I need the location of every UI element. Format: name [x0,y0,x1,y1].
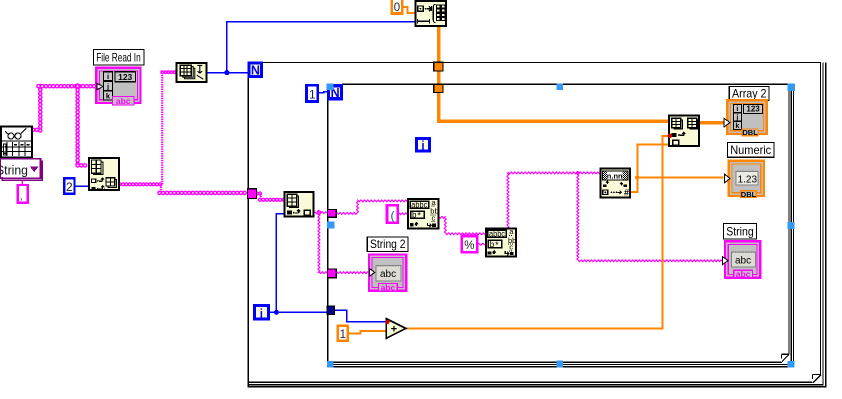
Array Size function [177,63,207,82]
wire: I32 up and right to Initialize Array dimension input [227,22,415,73]
magenta tunnel on outer loop left border [247,189,256,199]
constant 2 [64,178,74,194]
wire: Match Pattern 1 after-substring to Match Pattern 2 [439,216,486,234]
red coercion dot on add input [386,320,390,324]
wire: string to Fract/Exp String To Number [508,172,600,174]
wire: DBL from Fract/Exp output up to Replace element input [631,144,668,192]
Array 2 DBL array indicator [724,100,767,137]
svg-text:abc: abc [736,269,751,279]
junction on i wire [274,310,279,315]
wire: 1D zigzag up to Array Size [161,72,163,184]
svg-text:0: 0 [394,2,400,14]
DBL constant 1 (orange) [338,326,348,341]
svg-text:abc: abc [381,283,396,293]
wire: I32 Array Size to outer loop N [207,72,248,74]
svg-text:i: i [421,141,424,153]
svg-text:k: k [735,123,739,130]
wire: 1D chain down-right to outer loop tunnel [160,184,162,191]
wire: % constant to Match Pattern 2 pattern input [479,243,486,245]
blue tunnel inner loop top-left corner [327,84,334,91]
wire: comma constant stub to VI delimiter input [21,179,23,184]
Numeric label [727,143,773,158]
% string constant [462,236,478,252]
String label [723,224,756,239]
svg-text:N: N [251,63,260,77]
junction on 2D string wire [75,83,81,89]
svg-text:,: , [20,192,23,203]
junction on string wire [317,211,321,215]
( string constant [387,205,398,223]
blue tunnel inner loop right border [788,222,795,229]
svg-text:Numeric: Numeric [730,143,771,157]
blue tunnel inner loop top-right corner [788,84,796,92]
svg-text:i: i [736,106,738,113]
inner loop i terminal [417,139,430,152]
inner for loop border [342,83,788,85]
blue tunnel inner loop bottom-right corner [788,361,795,367]
svg-text:DBL: DBL [742,128,758,137]
wire: constant 1 to add node [349,331,386,334]
svg-text:*: * [417,211,421,221]
inner loop N count terminal [328,86,341,99]
svg-text:%: % [464,240,474,252]
String 2 indicator [369,254,406,292]
Match Pattern 2 function [486,227,516,256]
increment Add function [386,319,406,339]
wire: DBL constant 0 to Initialize Array element [403,7,415,13]
wire: chain down to Index Array 1 [75,86,80,164]
blue tunnel inner loop top border [556,83,563,90]
svg-text:123: 123 [746,105,760,114]
svg-text:abbc: abbc [411,200,427,209]
junction on I32 wire [224,70,229,75]
outer loop i terminal [255,306,269,320]
Read From Spreadsheet File VI icon [1,127,32,158]
wire: string from tunnel1 to Match Pattern 1 [337,200,408,215]
svg-text:j: j [735,115,738,122]
svg-text:b: b [490,240,495,249]
junction on string wire to String indicator [576,171,580,175]
junction on DBL wire [635,175,639,179]
svg-text:File Read In: File Read In [96,51,141,65]
svg-text:(: ( [391,209,395,223]
svg-text:String: String [726,225,754,239]
svg-text:abbc: abbc [489,230,505,239]
Index Array 2 function [285,192,314,216]
Match Pattern 1 function [408,198,438,229]
wire: string branch down and right to String indicator [577,174,723,262]
svg-text:1.23: 1.23 [738,174,758,185]
String 2 label [367,237,408,252]
svg-text:DBL: DBL [741,190,757,199]
orange tunnel on outer loop top border [434,62,443,71]
svg-text:*: * [495,240,499,250]
wire: string from tunnel2 to String 2 indicator [337,272,370,274]
blue tunnel inner loop bottom border [556,360,563,367]
wire: constant 1 to inner loop N [319,92,328,93]
Fract/Exp String To Number function [600,169,630,198]
wire: DBL array Replace Array Subset to Array 2 [700,121,724,124]
wire: vertical chain up [38,85,43,131]
wire: i up to Index Array 2 index input [276,214,284,313]
wire: outer loop i terminal [270,311,277,313]
svg-text:n.nn: n.nn [607,171,623,180]
String indicator [723,241,761,279]
File Read In string array indicator [96,68,140,106]
outer loop N count terminal [249,63,262,76]
blue tunnel inner loop left border [327,222,334,229]
svg-text:String: String [0,164,28,178]
svg-text:abc: abc [735,255,751,266]
svg-text:1: 1 [340,329,346,341]
wire: constant 2 to Index Array 1 index input [75,185,89,187]
wire: i right through navy tunnel to increment add node [276,311,330,313]
Initialize Array function [415,1,446,26]
svg-text:i: i [107,72,109,81]
outer loop dog-ear corner [812,374,821,382]
wire: 1D chain from tunnel into Index Array 2 [257,191,261,195]
svg-text:123: 123 [118,72,132,82]
svg-text:String 2: String 2 [370,237,406,251]
wire: DBL to Numeric indicator [637,177,723,179]
navy tunnel on inner loop left border [327,306,335,314]
comma string constant [18,185,28,203]
svg-text:1: 1 [309,87,316,101]
svg-text:#: # [624,188,629,198]
Replace Array Subset function [669,115,699,146]
svg-text:Array 2: Array 2 [732,87,767,101]
svg-text:abc: abc [116,96,131,106]
red coercion dot on Replace index input [668,134,672,138]
wire: string down to second tunnel [318,214,328,274]
wire: horizontal chain to File Read In [39,84,97,89]
svg-text:+: + [391,324,397,336]
wire: ( constant to Match Pattern 1 pattern input [399,213,408,215]
Index Array 1 function [89,158,119,190]
orange tunnel on inner loop top border [434,84,443,92]
outer for loop border [262,62,821,64]
String ring constant [0,159,42,181]
blue tunnel inner loop bottom-left corner [327,361,334,367]
svg-text:b: b [412,211,417,220]
wire: 1D string array from Index Array 1 output [120,182,162,186]
File Read In label [93,49,144,65]
Array 2 label [729,86,769,100]
svg-text:abc: abc [380,269,396,280]
svg-text:2: 2 [66,180,73,194]
Numeric DBL indicator [724,161,764,199]
inner loop dog-ear corner [781,354,789,362]
wire: string riser at Match Pattern 2 top [507,173,509,229]
wire: DBL thick array from Initialize Array down through tunnels [439,26,669,121]
I32 constant 1 (blue) [307,85,318,101]
DBL constant 0 [392,0,403,14]
wire: scalar string from Index Array 2 output [315,212,328,214]
magenta tunnel 1 on inner loop left border [328,210,337,218]
wire: 2D string array chain from spreadsheet VI to File Read In [33,128,39,133]
svg-text:j: j [106,82,109,91]
magenta tunnel 2 on inner loop left border [328,269,337,278]
wire: add output right and up to Replace index input [406,136,668,328]
svg-text:i: i [260,308,263,320]
